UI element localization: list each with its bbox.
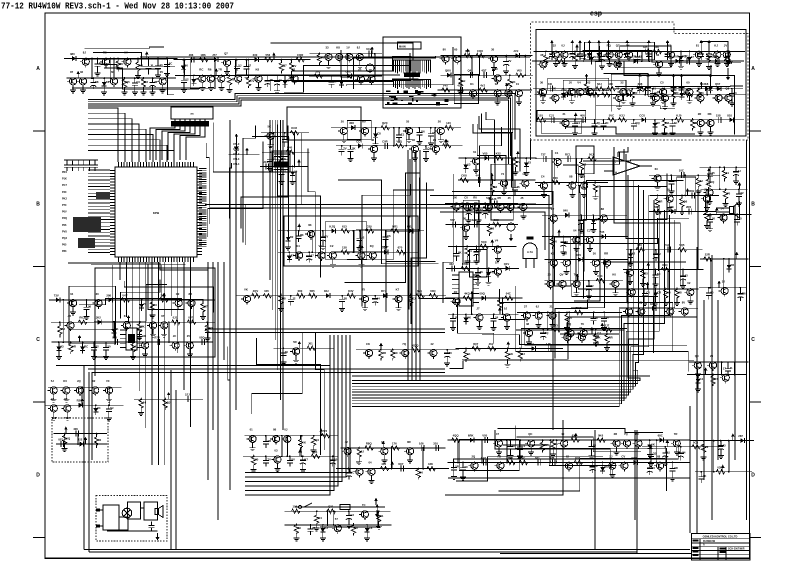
svg-text:02: 02 bbox=[80, 70, 84, 74]
svg-text:04: 04 bbox=[70, 292, 74, 296]
svg-text:38: 38 bbox=[526, 322, 530, 326]
svg-text:63: 63 bbox=[587, 81, 591, 85]
svg-text:2J: 2J bbox=[522, 352, 526, 356]
svg-text:675: 675 bbox=[632, 55, 637, 59]
svg-text:C00: C00 bbox=[367, 224, 373, 228]
svg-text:8K: 8K bbox=[300, 233, 304, 237]
svg-text:58: 58 bbox=[491, 227, 495, 231]
svg-text:K7: K7 bbox=[396, 288, 400, 292]
svg-text:RR: RR bbox=[609, 336, 613, 340]
svg-text:J3: J3 bbox=[51, 397, 55, 401]
svg-text:58: 58 bbox=[344, 296, 348, 300]
svg-text:21: 21 bbox=[550, 304, 554, 308]
svg-text:60: 60 bbox=[454, 48, 458, 52]
svg-text:286: 286 bbox=[106, 293, 111, 297]
svg-text:QJ: QJ bbox=[167, 401, 171, 405]
svg-text:8C: 8C bbox=[635, 432, 639, 436]
svg-text:VR: VR bbox=[142, 334, 146, 338]
svg-text:K4: K4 bbox=[700, 377, 704, 381]
svg-text:6R: 6R bbox=[674, 466, 678, 470]
svg-text:R6: R6 bbox=[208, 68, 212, 72]
svg-text:R04: R04 bbox=[312, 450, 318, 454]
svg-text:QC: QC bbox=[528, 432, 532, 436]
svg-text:Q5: Q5 bbox=[126, 80, 130, 84]
svg-text:60: 60 bbox=[686, 81, 690, 85]
svg-text:0V: 0V bbox=[517, 160, 521, 164]
svg-text:Q6: Q6 bbox=[683, 199, 687, 203]
svg-text:0J: 0J bbox=[284, 428, 288, 432]
svg-text:CQ8: CQ8 bbox=[477, 49, 483, 53]
svg-text:83: 83 bbox=[595, 316, 599, 320]
svg-text:0V: 0V bbox=[160, 70, 164, 74]
svg-text:2K: 2K bbox=[352, 146, 356, 150]
svg-text:K5: K5 bbox=[673, 179, 677, 183]
svg-text:0K: 0K bbox=[552, 87, 556, 91]
svg-text:00: 00 bbox=[449, 351, 453, 355]
svg-text:K7: K7 bbox=[304, 458, 308, 462]
svg-text:P2Q: P2Q bbox=[62, 217, 67, 220]
svg-text:QJ: QJ bbox=[428, 146, 432, 150]
svg-text:26: 26 bbox=[438, 120, 442, 124]
svg-text:7R: 7R bbox=[674, 432, 678, 436]
svg-text:0J1: 0J1 bbox=[173, 316, 178, 320]
svg-text:C73: C73 bbox=[553, 323, 559, 327]
svg-text:557: 557 bbox=[450, 218, 455, 222]
svg-text:KJ0: KJ0 bbox=[676, 113, 682, 117]
svg-text:J1: J1 bbox=[730, 366, 734, 370]
svg-text:86: 86 bbox=[273, 428, 277, 432]
svg-text:663: 663 bbox=[539, 88, 544, 92]
svg-text:JC8: JC8 bbox=[263, 160, 269, 164]
svg-text:02: 02 bbox=[495, 82, 499, 86]
svg-text:PR4: PR4 bbox=[62, 171, 67, 174]
svg-text:30: 30 bbox=[412, 138, 416, 142]
svg-text:J5: J5 bbox=[520, 196, 524, 200]
svg-text:RKC: RKC bbox=[576, 306, 582, 310]
svg-text:R0: R0 bbox=[473, 195, 477, 199]
svg-text:23: 23 bbox=[710, 354, 714, 358]
svg-text:3K: 3K bbox=[703, 474, 707, 478]
svg-text:P1K: P1K bbox=[62, 178, 67, 181]
svg-text:XTL3: XTL3 bbox=[233, 157, 240, 161]
svg-text:C1: C1 bbox=[555, 151, 559, 155]
svg-text:C4: C4 bbox=[541, 174, 545, 178]
svg-text:60: 60 bbox=[710, 290, 714, 294]
svg-text:J77: J77 bbox=[212, 53, 217, 57]
svg-text:01: 01 bbox=[516, 82, 520, 86]
svg-text:JK2: JK2 bbox=[96, 316, 102, 320]
svg-text:5J: 5J bbox=[286, 137, 290, 141]
svg-text:14: 14 bbox=[294, 169, 298, 173]
svg-text:C6: C6 bbox=[369, 526, 373, 530]
svg-text:03: 03 bbox=[274, 448, 278, 452]
svg-text:CK: CK bbox=[366, 342, 370, 346]
svg-text:MAIN: MAIN bbox=[399, 45, 406, 49]
svg-text:67: 67 bbox=[124, 314, 128, 318]
svg-text:K8: K8 bbox=[256, 68, 260, 72]
svg-text:380: 380 bbox=[70, 52, 75, 56]
svg-text:2R0: 2R0 bbox=[686, 205, 692, 209]
svg-text:5VC: 5VC bbox=[609, 113, 614, 117]
svg-text:00Q: 00Q bbox=[480, 292, 486, 296]
svg-text:27: 27 bbox=[312, 526, 316, 530]
svg-text:43: 43 bbox=[666, 121, 670, 125]
svg-text:R00: R00 bbox=[553, 176, 559, 180]
svg-text:C8: C8 bbox=[377, 132, 381, 136]
svg-text:24: 24 bbox=[495, 316, 499, 320]
svg-text:Q8: Q8 bbox=[725, 87, 729, 91]
svg-text:04: 04 bbox=[369, 461, 373, 465]
svg-text:8J: 8J bbox=[564, 252, 568, 256]
svg-text:332: 332 bbox=[449, 262, 454, 266]
svg-text:V05: V05 bbox=[483, 152, 488, 156]
svg-text:05: 05 bbox=[712, 171, 716, 175]
svg-text:QR: QR bbox=[595, 217, 599, 221]
svg-text:K0: K0 bbox=[612, 273, 616, 277]
svg-text:7C3: 7C3 bbox=[557, 55, 563, 59]
svg-text:63: 63 bbox=[60, 345, 64, 349]
svg-text:21: 21 bbox=[547, 56, 551, 60]
svg-text:2J7: 2J7 bbox=[605, 323, 610, 327]
svg-text:K8: K8 bbox=[336, 46, 340, 50]
svg-text:C02: C02 bbox=[713, 55, 719, 59]
svg-text:J0: J0 bbox=[569, 81, 573, 85]
svg-text:K7: K7 bbox=[583, 218, 587, 222]
svg-text:KJ: KJ bbox=[714, 44, 718, 48]
svg-text:Q4: Q4 bbox=[315, 438, 319, 442]
svg-text:A.7A: A.7A bbox=[527, 250, 533, 254]
svg-text:6C: 6C bbox=[150, 314, 154, 318]
svg-text:3C: 3C bbox=[394, 351, 398, 355]
svg-text:PV8: PV8 bbox=[62, 230, 67, 233]
svg-text:R4: R4 bbox=[318, 516, 322, 520]
svg-text:20: 20 bbox=[548, 273, 552, 277]
svg-text:Q3: Q3 bbox=[653, 451, 657, 455]
svg-text:0J: 0J bbox=[662, 87, 666, 91]
svg-text:00: 00 bbox=[285, 350, 289, 354]
svg-text:70: 70 bbox=[143, 302, 147, 306]
svg-text:3J6: 3J6 bbox=[492, 197, 497, 201]
svg-text:8V: 8V bbox=[682, 300, 686, 304]
svg-text:8V1: 8V1 bbox=[417, 289, 422, 293]
svg-text:351: 351 bbox=[529, 342, 534, 346]
svg-text:QK0: QK0 bbox=[445, 69, 451, 73]
svg-text:XTL4: XTL4 bbox=[233, 162, 240, 166]
svg-text:V35: V35 bbox=[599, 230, 604, 234]
svg-text:1R: 1R bbox=[455, 316, 459, 320]
svg-text:37: 37 bbox=[524, 304, 528, 308]
svg-text:J0: J0 bbox=[150, 63, 154, 67]
svg-text:V45: V45 bbox=[443, 84, 448, 88]
svg-text:V05: V05 bbox=[482, 434, 487, 438]
svg-text:2J: 2J bbox=[609, 455, 613, 459]
svg-text:J61: J61 bbox=[308, 342, 313, 346]
svg-text:8V: 8V bbox=[291, 458, 295, 462]
svg-text:25: 25 bbox=[187, 334, 191, 338]
svg-text:6J: 6J bbox=[462, 79, 466, 83]
svg-text:80: 80 bbox=[298, 526, 302, 530]
svg-text:70: 70 bbox=[727, 192, 731, 196]
svg-text:560: 560 bbox=[654, 205, 659, 209]
svg-text:31: 31 bbox=[667, 451, 671, 455]
svg-text:0QQ: 0QQ bbox=[413, 343, 420, 347]
svg-text:K0: K0 bbox=[106, 80, 110, 84]
svg-text:1J8: 1J8 bbox=[546, 342, 551, 346]
svg-text:2K: 2K bbox=[453, 195, 457, 199]
svg-text:50: 50 bbox=[108, 345, 112, 349]
svg-text:42: 42 bbox=[345, 440, 349, 444]
svg-text:40: 40 bbox=[154, 303, 158, 307]
svg-text:310: 310 bbox=[433, 442, 438, 446]
svg-text:1Q7: 1Q7 bbox=[382, 246, 388, 250]
svg-text:01: 01 bbox=[467, 352, 471, 356]
svg-text:36J: 36J bbox=[324, 289, 329, 293]
svg-text:31: 31 bbox=[564, 326, 568, 330]
svg-text:3C: 3C bbox=[674, 121, 678, 125]
svg-text:81: 81 bbox=[696, 44, 700, 48]
svg-text:02: 02 bbox=[361, 235, 365, 239]
svg-text:RC: RC bbox=[84, 345, 88, 349]
svg-text:21: 21 bbox=[563, 112, 567, 116]
svg-text:CV: CV bbox=[324, 235, 328, 239]
svg-text:VC: VC bbox=[350, 470, 354, 474]
svg-text:55: 55 bbox=[406, 120, 410, 124]
svg-text:Q2C: Q2C bbox=[382, 121, 388, 125]
svg-text:61: 61 bbox=[473, 150, 477, 154]
svg-text:05: 05 bbox=[616, 87, 620, 91]
svg-text:04C: 04C bbox=[506, 292, 511, 296]
svg-text:4Q7: 4Q7 bbox=[481, 69, 487, 73]
svg-text:68: 68 bbox=[657, 455, 661, 459]
svg-text:6C: 6C bbox=[657, 272, 661, 276]
svg-text:C5: C5 bbox=[660, 81, 664, 85]
svg-text:30: 30 bbox=[321, 55, 325, 59]
svg-text:63R: 63R bbox=[631, 456, 636, 460]
svg-text:2K3: 2K3 bbox=[494, 218, 500, 222]
svg-text:B: B bbox=[36, 202, 40, 208]
svg-text:xx: xx bbox=[190, 112, 194, 116]
svg-text:445: 445 bbox=[476, 174, 481, 178]
svg-text:30: 30 bbox=[491, 48, 495, 52]
svg-text:CJ1: CJ1 bbox=[549, 113, 555, 117]
svg-text:1J0: 1J0 bbox=[446, 121, 451, 125]
svg-text:287: 287 bbox=[738, 434, 743, 438]
svg-text:3K: 3K bbox=[282, 157, 286, 161]
svg-text:810: 810 bbox=[727, 113, 732, 117]
svg-text:Q1V: Q1V bbox=[504, 262, 510, 266]
svg-text:1R6: 1R6 bbox=[200, 53, 206, 57]
svg-text:5V: 5V bbox=[124, 51, 128, 55]
svg-text:30: 30 bbox=[255, 458, 259, 462]
svg-text:47: 47 bbox=[496, 432, 500, 436]
svg-text:JK: JK bbox=[487, 208, 491, 212]
svg-text:6J: 6J bbox=[536, 304, 540, 308]
svg-text:74C: 74C bbox=[520, 456, 525, 460]
svg-text:106: 106 bbox=[293, 505, 298, 509]
svg-text:5V: 5V bbox=[657, 121, 661, 125]
svg-text:831: 831 bbox=[535, 456, 540, 460]
svg-text:44: 44 bbox=[565, 240, 569, 244]
svg-text:B: B bbox=[751, 202, 755, 208]
svg-text:QR1: QR1 bbox=[392, 224, 398, 228]
svg-text:045: 045 bbox=[264, 289, 269, 293]
svg-text:JC: JC bbox=[675, 91, 679, 95]
svg-text:J86: J86 bbox=[189, 53, 194, 57]
svg-text:737: 737 bbox=[541, 152, 546, 156]
svg-text:0Q7: 0Q7 bbox=[398, 462, 404, 466]
svg-text:R40: R40 bbox=[287, 146, 293, 150]
svg-text:840: 840 bbox=[563, 209, 568, 213]
svg-text:C7: C7 bbox=[714, 377, 718, 381]
svg-text:KPB: KPB bbox=[153, 211, 160, 215]
svg-text:R7V: R7V bbox=[154, 336, 160, 340]
svg-text:K52: K52 bbox=[496, 152, 502, 156]
svg-text:73V: 73V bbox=[54, 293, 59, 297]
svg-text:50J: 50J bbox=[589, 152, 594, 156]
svg-text:88: 88 bbox=[569, 174, 573, 178]
svg-text:RK: RK bbox=[708, 112, 712, 116]
svg-text:KC8: KC8 bbox=[291, 126, 297, 130]
svg-text:2C: 2C bbox=[605, 121, 609, 125]
svg-text:0K: 0K bbox=[651, 443, 655, 447]
svg-text:32: 32 bbox=[553, 44, 557, 48]
svg-text:51: 51 bbox=[726, 171, 730, 175]
svg-text:R8Q: R8Q bbox=[366, 442, 373, 446]
svg-text:V4: V4 bbox=[139, 63, 143, 67]
svg-text:22: 22 bbox=[287, 79, 291, 83]
svg-text:C: C bbox=[751, 337, 755, 343]
svg-text:V4: V4 bbox=[577, 81, 581, 85]
svg-text:62: 62 bbox=[632, 251, 636, 255]
svg-text:11: 11 bbox=[283, 169, 286, 173]
svg-text:02: 02 bbox=[687, 281, 691, 285]
svg-text:VV: VV bbox=[508, 59, 512, 63]
svg-text:J2: J2 bbox=[292, 296, 296, 300]
svg-text:8J: 8J bbox=[357, 46, 361, 50]
svg-text:CC0: CC0 bbox=[639, 113, 645, 117]
svg-text:V4V: V4V bbox=[122, 293, 127, 297]
svg-text:24: 24 bbox=[682, 451, 686, 455]
svg-text:R0J: R0J bbox=[79, 316, 85, 320]
svg-text:13: 13 bbox=[160, 63, 164, 67]
svg-text:V05: V05 bbox=[517, 69, 522, 73]
svg-text:Q0: Q0 bbox=[209, 326, 213, 330]
svg-text:CJ: CJ bbox=[412, 296, 416, 300]
svg-text:J2Q: J2Q bbox=[315, 70, 321, 74]
svg-text:101: 101 bbox=[538, 113, 543, 117]
svg-text:31: 31 bbox=[116, 327, 120, 331]
svg-text:52: 52 bbox=[494, 185, 498, 189]
svg-text:42: 42 bbox=[478, 249, 482, 253]
svg-text:080: 080 bbox=[298, 289, 303, 293]
svg-text:00: 00 bbox=[667, 188, 671, 192]
svg-text:K1: K1 bbox=[470, 82, 474, 86]
svg-text:P83: P83 bbox=[62, 250, 67, 253]
svg-text:Q7: Q7 bbox=[616, 44, 620, 48]
svg-text:42: 42 bbox=[430, 342, 434, 346]
svg-text:V4: V4 bbox=[495, 238, 499, 242]
svg-text:CR: CR bbox=[657, 291, 661, 295]
svg-text:5J: 5J bbox=[110, 406, 114, 410]
svg-text:30: 30 bbox=[593, 252, 597, 256]
svg-text:Q67: Q67 bbox=[715, 82, 721, 86]
svg-text:K3V: K3V bbox=[348, 289, 354, 293]
svg-text:V5: V5 bbox=[667, 291, 671, 295]
svg-text:61: 61 bbox=[135, 345, 139, 349]
svg-text:RC: RC bbox=[199, 68, 203, 72]
svg-text:3K8: 3K8 bbox=[703, 82, 709, 86]
svg-text:77: 77 bbox=[279, 79, 283, 83]
svg-text:38: 38 bbox=[540, 53, 544, 57]
svg-text:62J: 62J bbox=[597, 82, 602, 86]
svg-text:K0: K0 bbox=[63, 379, 67, 383]
svg-text:R2: R2 bbox=[731, 263, 735, 267]
svg-text:C04: C04 bbox=[597, 274, 603, 278]
svg-text:V6: V6 bbox=[387, 234, 391, 238]
svg-text:VJ: VJ bbox=[358, 68, 362, 72]
svg-text:V3: V3 bbox=[512, 444, 516, 448]
svg-text:8R: 8R bbox=[659, 199, 663, 203]
svg-text:613: 613 bbox=[342, 224, 347, 228]
svg-text:04: 04 bbox=[573, 229, 577, 233]
svg-text:CJ: CJ bbox=[587, 229, 591, 233]
svg-text:CV6: CV6 bbox=[625, 88, 631, 92]
svg-text:PQJ: PQJ bbox=[62, 237, 68, 240]
svg-text:308: 308 bbox=[349, 121, 354, 125]
svg-text:5J: 5J bbox=[51, 379, 55, 383]
svg-text:R6: R6 bbox=[626, 44, 630, 48]
svg-text:C0: C0 bbox=[136, 80, 140, 84]
svg-text:P06: P06 bbox=[62, 224, 67, 227]
svg-text:7R: 7R bbox=[218, 68, 222, 72]
svg-text:74: 74 bbox=[501, 172, 505, 176]
svg-text:R8: R8 bbox=[95, 80, 99, 84]
svg-text:RKC: RKC bbox=[592, 88, 598, 92]
svg-text:CQR: CQR bbox=[297, 53, 303, 57]
svg-text:C6C: C6C bbox=[345, 70, 351, 74]
svg-text:15: 15 bbox=[334, 458, 338, 462]
svg-text:22R: 22R bbox=[705, 252, 710, 256]
svg-text:7K7: 7K7 bbox=[685, 88, 691, 92]
svg-text:8V: 8V bbox=[443, 48, 447, 52]
svg-text:72: 72 bbox=[705, 445, 709, 449]
svg-text:02: 02 bbox=[96, 345, 100, 349]
svg-text:02: 02 bbox=[185, 77, 189, 81]
svg-text:404: 404 bbox=[381, 462, 386, 466]
svg-text:6K: 6K bbox=[458, 251, 462, 255]
svg-text:Q31: Q31 bbox=[328, 505, 334, 509]
svg-text:4R: 4R bbox=[597, 185, 601, 189]
svg-text:Q7: Q7 bbox=[283, 64, 287, 68]
svg-text:esp: esp bbox=[590, 11, 602, 18]
svg-text:5R: 5R bbox=[455, 465, 459, 469]
svg-text:P70: P70 bbox=[62, 204, 67, 207]
svg-text:84: 84 bbox=[97, 406, 101, 410]
svg-text:P40: P40 bbox=[62, 191, 67, 194]
svg-text:C1: C1 bbox=[522, 444, 526, 448]
svg-text:77-12 RU4W10W REV3.sch-1 - Wed: 77-12 RU4W10W REV3.sch-1 - Wed Nov 28 10… bbox=[1, 1, 234, 12]
svg-text:22: 22 bbox=[593, 444, 597, 448]
svg-text:R2: R2 bbox=[290, 235, 294, 239]
svg-text:17: 17 bbox=[723, 367, 727, 371]
svg-text:R7J: R7J bbox=[381, 289, 387, 293]
svg-text:2K: 2K bbox=[141, 325, 145, 329]
svg-text:JR: JR bbox=[269, 78, 273, 82]
svg-text:05Q: 05Q bbox=[199, 336, 205, 340]
svg-text:K3: K3 bbox=[324, 526, 328, 530]
svg-text:PC7: PC7 bbox=[62, 184, 67, 187]
svg-text:02: 02 bbox=[145, 80, 149, 84]
